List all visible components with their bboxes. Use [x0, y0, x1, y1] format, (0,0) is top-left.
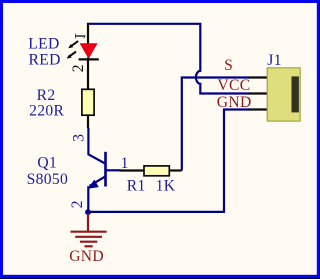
svg-text:2: 2 [69, 200, 86, 208]
connector J1 key bar [292, 76, 299, 112]
wire GND net: from J1 GND pin left, down and left to emitter junction [87, 110, 249, 212]
svg-text:2: 2 [70, 64, 87, 72]
wire S net: from J1 S pin left then down to R1 right pin [182, 78, 249, 171]
svg-text:R2: R2 [37, 87, 56, 104]
LED light arrow 2 [68, 52, 76, 58]
resistor R2 body [82, 89, 94, 115]
svg-text:220R: 220R [29, 102, 64, 119]
resistor R2 bottom pin [87, 115, 89, 129]
svg-text:S8050: S8050 [27, 171, 69, 188]
svg-text:S: S [224, 57, 233, 74]
connector J1 body [267, 68, 300, 121]
LED body (red triangle) [80, 43, 98, 59]
ground symbol bar 3 [80, 241, 97, 243]
svg-text:LED: LED [28, 36, 59, 53]
svg-text:J1: J1 [267, 52, 282, 69]
svg-text:GND: GND [217, 94, 252, 111]
svg-text:GND: GND [69, 248, 104, 265]
connector J1 pin GND [249, 108, 268, 110]
transistor Q1 base bar [104, 152, 107, 187]
ground symbol bar 1 [71, 231, 107, 233]
LED light arrow 1 [70, 41, 78, 47]
resistor R1 body [144, 166, 169, 176]
svg-text:R1: R1 [127, 178, 146, 195]
svg-text:Q1: Q1 [37, 155, 57, 172]
svg-text:1K: 1K [156, 178, 176, 195]
LED cathode bar [79, 58, 99, 60]
svg-text:RED: RED [29, 51, 61, 68]
svg-text:VCC: VCC [217, 77, 250, 94]
transistor Q1 emitter pin (pin 2) with arrow [88, 176, 105, 211]
connector J1 pin VCC [249, 92, 268, 94]
transistor Q1 collector pin (pin 3) [88, 128, 105, 164]
transistor Q1 base pin (pin 1) [106, 169, 121, 171]
svg-text:1: 1 [121, 155, 129, 172]
wire VCC net: top wire from LED anode, down with hop over S wire, to J1 VCC pin [87, 24, 249, 94]
svg-text:3: 3 [71, 134, 88, 142]
ground symbol bar 2 [75, 236, 102, 238]
svg-text:1: 1 [71, 32, 88, 40]
ground symbol stem [87, 214, 89, 232]
LED pin 2 lead into R2 [87, 58, 89, 91]
connector J1 pin S [249, 76, 268, 78]
junction dot at emitter/GND node [85, 209, 91, 215]
resistor R1 right pin [169, 169, 182, 171]
resistor R1 left pin [120, 169, 145, 171]
ground symbol bar 4 [85, 245, 93, 247]
LED pin 1 lead [87, 23, 89, 44]
